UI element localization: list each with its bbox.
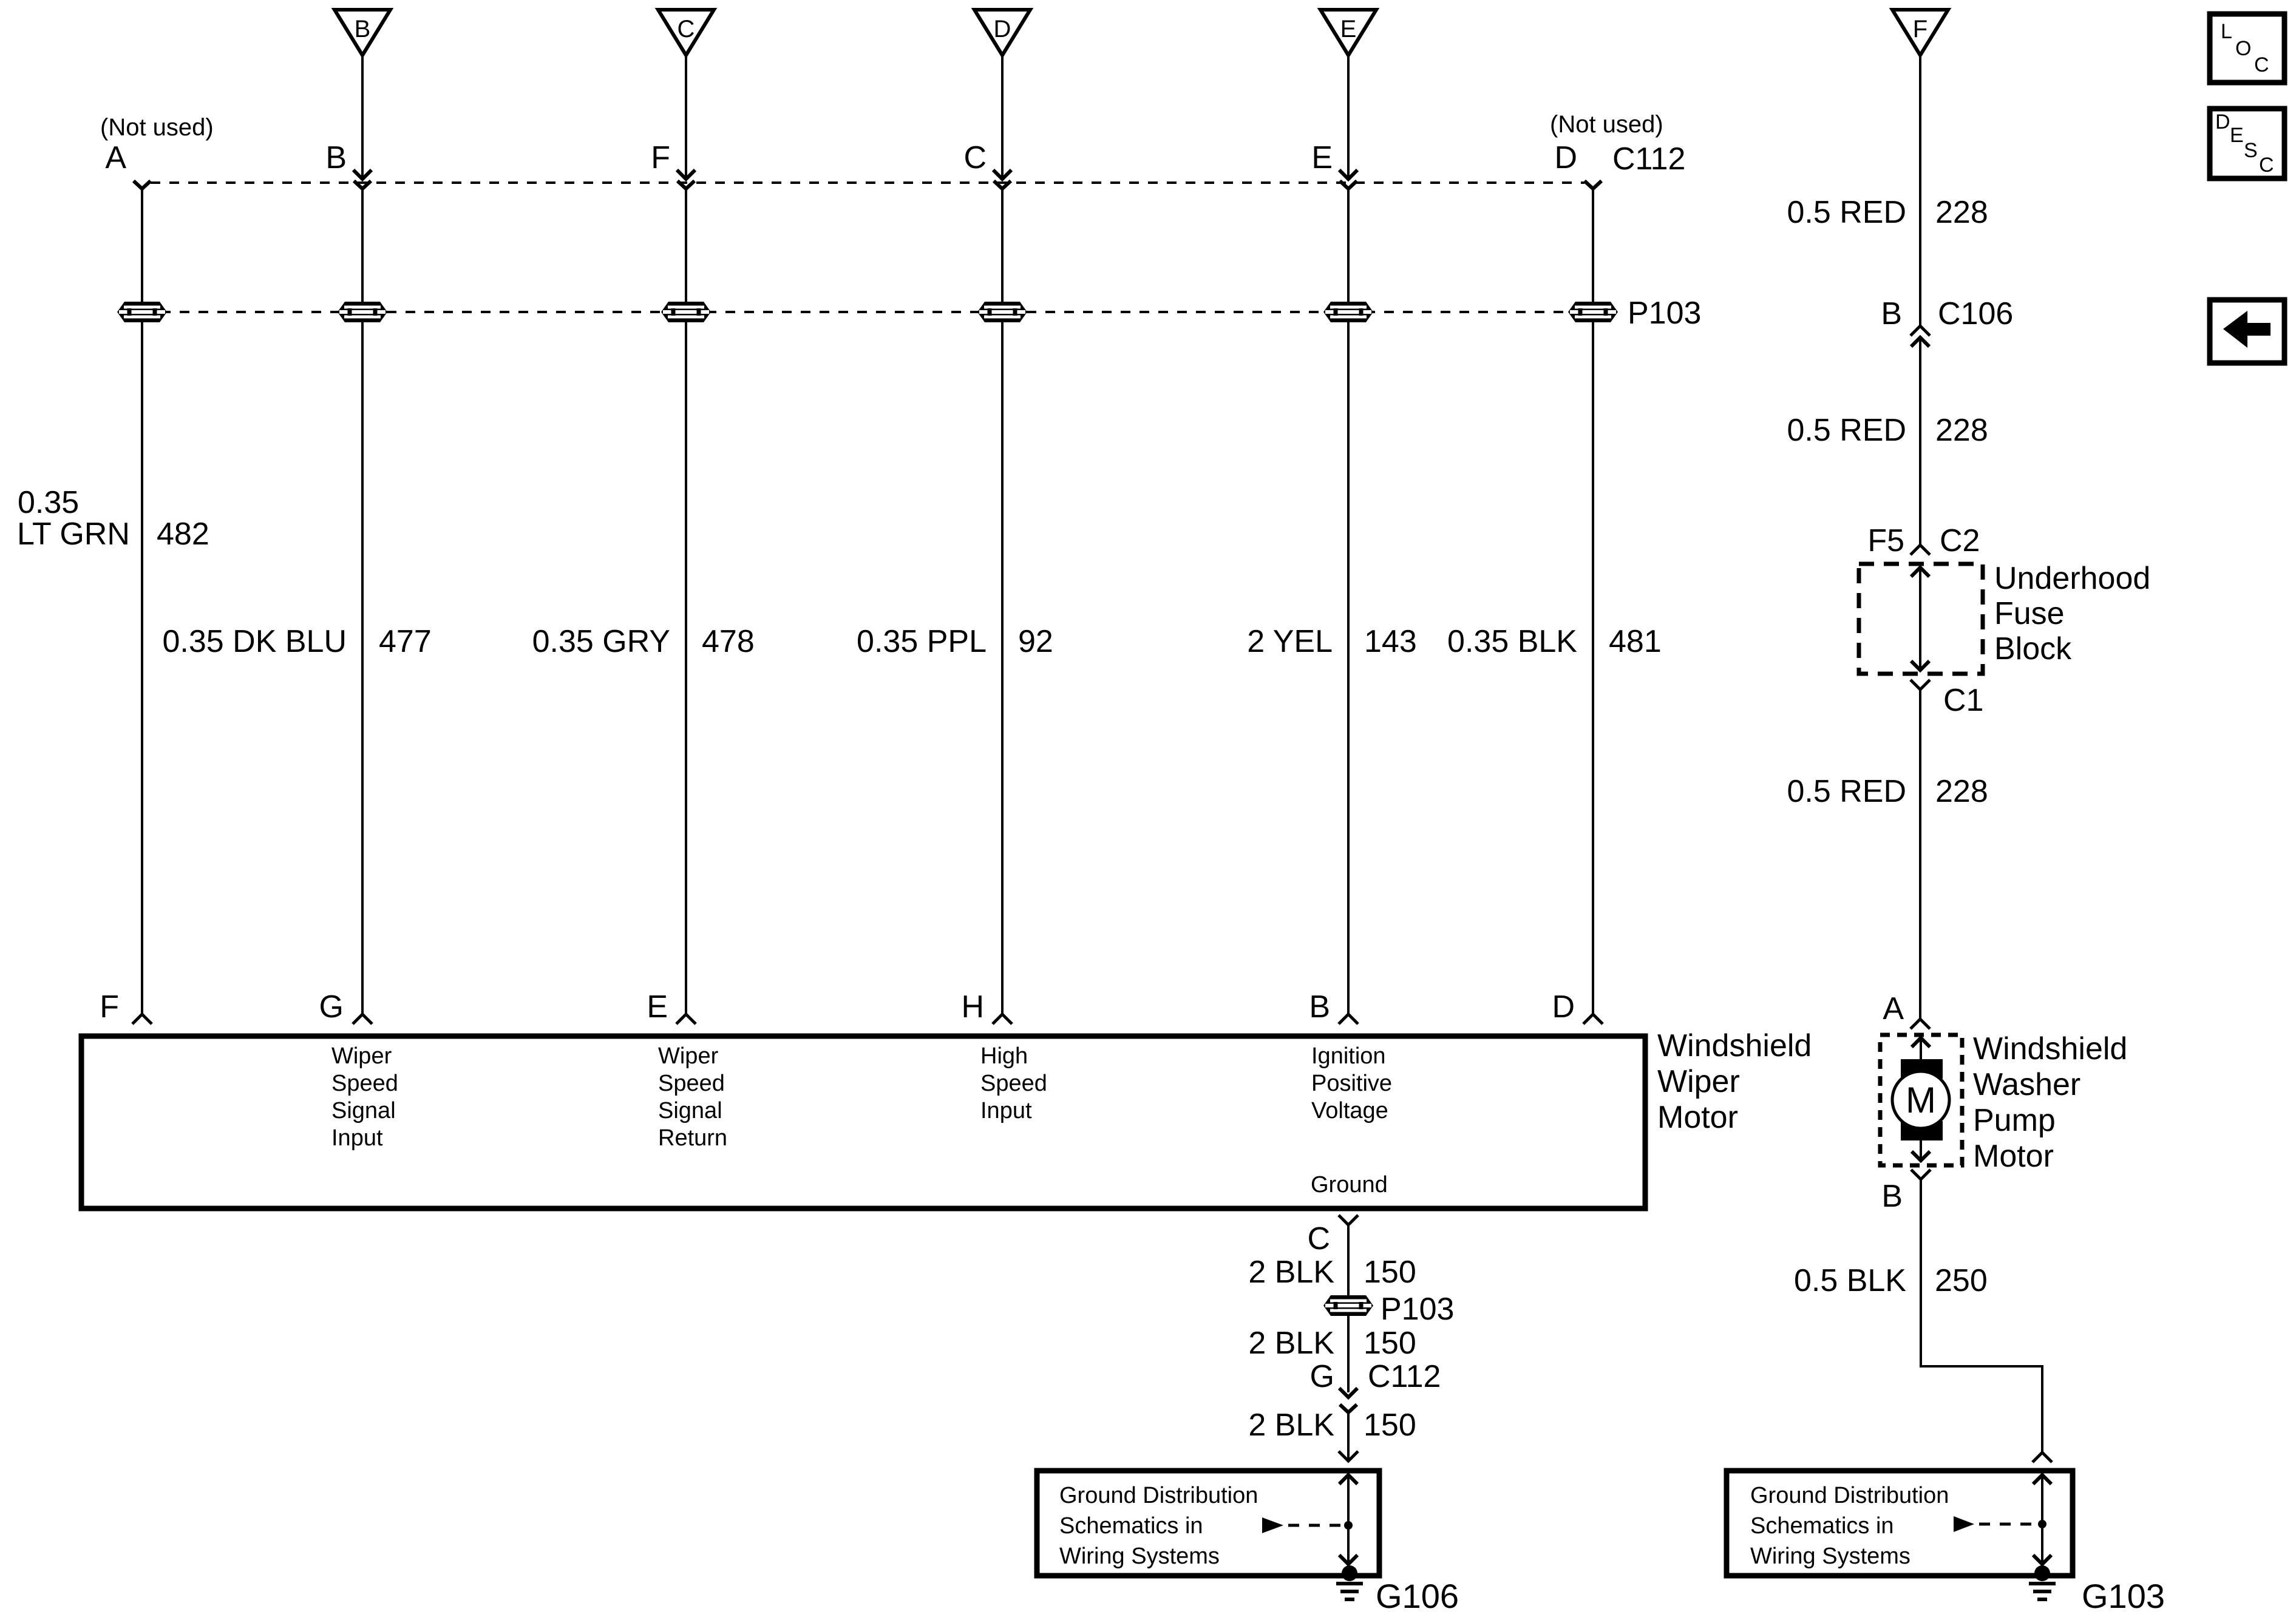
svg-text:0.35 GRY: 0.35 GRY [532,624,670,659]
svg-text:Ground Distribution: Ground Distribution [1750,1483,1949,1508]
windshield washer pump motor dashed box [1880,1035,1962,1165]
page reference triangle C [658,10,714,55]
underhood fuse block dashed box [1859,564,1983,674]
svg-text:0.35 PPL: 0.35 PPL [857,624,987,659]
wire pin C to P103 [1347,1225,1350,1295]
svg-text:Pump: Pump [1973,1103,2056,1138]
svg-text:2 BLK: 2 BLK [1248,1408,1334,1443]
svg-text:C2: C2 [1940,523,1980,558]
svg-text:Voltage: Voltage [1311,1098,1388,1123]
label Windshield Washer Pump Motor [1973,1031,2127,1174]
svg-text:S: S [2244,139,2258,162]
arrow down inside right ground box [2033,1555,2051,1564]
svg-text:92: 92 [1018,624,1053,659]
svg-text:Schematics in: Schematics in [1750,1513,1894,1539]
svg-text:C: C [1307,1221,1330,1256]
svg-text:D: D [1554,140,1577,175]
pointer triangle right ground box [1954,1516,1974,1532]
svg-text:C106: C106 [1938,296,2013,331]
wire C112 to ground box [1347,1411,1350,1461]
svg-text:LT GRN: LT GRN [17,517,130,552]
svg-text:Ground: Ground [1311,1172,1388,1198]
page reference triangle B [335,10,390,55]
svg-text:C: C [963,140,987,175]
svg-text:Return: Return [658,1125,727,1151]
connector C112 dashed line [151,181,1584,184]
label Ground Distribution Schematics left [1059,1483,1258,1569]
svg-text:150: 150 [1364,1255,1416,1290]
splice P103 col D6 [1568,302,1618,322]
connector C112 pin A chevron [134,181,151,189]
svg-text:P103: P103 [1381,1292,1454,1327]
wire col B P103 to motor [361,322,364,1014]
svg-text:Wiring Systems: Wiring Systems [1750,1544,1911,1569]
label Windshield Wiper Motor [1657,1028,1812,1135]
label Underhood Fuse Block [1994,561,2150,666]
svg-text:0.35 BLK: 0.35 BLK [1447,624,1577,659]
svg-text:(Not used): (Not used) [100,114,214,141]
ground G106 symbol [1336,1565,1363,1599]
splice P103 dashed line [142,311,1593,313]
svg-text:E: E [647,989,668,1025]
pointer dot right ground box [2038,1520,2046,1528]
arrow up inside fuse block [1911,568,1929,577]
svg-text:P103: P103 [1628,296,1701,331]
svg-text:Washer: Washer [1973,1067,2080,1102]
svg-text:228: 228 [1935,413,1988,448]
arrow down inside left ground box [1339,1555,1357,1564]
svg-text:0.5 RED: 0.5 RED [1787,413,1906,448]
svg-text:2 YEL: 2 YEL [1247,624,1333,659]
pin B fork into motor box [1339,1014,1358,1024]
svg-text:Windshield: Windshield [1973,1031,2127,1066]
svg-text:150: 150 [1364,1408,1416,1443]
svg-text:482: 482 [157,517,209,552]
ground G103 symbol [2029,1565,2056,1599]
wire washer pump B down [1920,1179,1922,1368]
svg-text:Wiper: Wiper [331,1043,392,1069]
label High Speed Input [980,1043,1047,1123]
svg-text:F: F [651,140,670,175]
svg-text:Wiring Systems: Wiring Systems [1059,1544,1220,1569]
label Ground Distribution Schematics right [1750,1483,1949,1569]
pointer dashed line right ground box [1979,1523,2034,1526]
page reference triangle F [1892,10,1948,55]
svg-text:E: E [1340,16,1357,42]
svg-text:(Not used): (Not used) [1550,111,1663,138]
connector C112 pin D chevron [1584,181,1601,189]
wire col C C112 to P103 [685,189,687,302]
svg-text:Speed: Speed [658,1071,725,1096]
svg-text:Motor: Motor [1973,1139,2054,1174]
svg-text:Signal: Signal [658,1098,722,1123]
arrow up inside washer pump box [1912,1038,1930,1060]
svg-text:High: High [980,1043,1028,1069]
svg-text:2 BLK: 2 BLK [1248,1255,1334,1290]
LOC legend box [2210,14,2284,83]
wire col E triangle to C112 [1347,55,1350,177]
svg-text:228: 228 [1935,195,1988,230]
svg-text:G: G [1310,1359,1334,1394]
svg-text:Motor: Motor [1657,1100,1738,1135]
connector C106 fork and up arrow [1911,326,1930,347]
wire inside right ground box [2041,1474,2043,1566]
svg-text:O: O [2235,37,2251,60]
svg-text:B: B [1881,296,1902,331]
page reference triangle D [974,10,1030,55]
svg-text:G103: G103 [2082,1577,2165,1615]
pin G fork into motor box [353,1014,372,1024]
label Wiper Speed Signal Input [331,1043,398,1151]
wire inside left ground box [1347,1474,1350,1566]
svg-text:Ground Distribution: Ground Distribution [1059,1483,1258,1508]
splice P103 col A [117,302,167,322]
svg-text:Wiper: Wiper [1657,1064,1740,1099]
connector C112 pin B arrow [353,170,372,189]
svg-text:B: B [325,140,347,175]
wire motor to bottom arrow [1920,1140,1922,1161]
arrow up inside right ground box [2033,1475,2051,1484]
svg-text:Ignition: Ignition [1311,1043,1386,1069]
svg-text:G: G [319,989,344,1025]
svg-text:150: 150 [1364,1326,1416,1361]
wire col A P103 to motor [141,322,143,1014]
wire col E C112 to P103 [1347,189,1350,302]
label Ignition Positive Voltage [1311,1043,1392,1123]
svg-text:Positive: Positive [1311,1071,1392,1096]
wire col D6 C112 to P103 [1592,189,1594,302]
splice P103 ground chain [1323,1295,1373,1316]
wire col B C112 to P103 [361,189,364,302]
arrow down inside washer pump box [1912,1151,1930,1161]
svg-text:C: C [678,16,695,42]
svg-text:F: F [1913,16,1927,42]
pin F fork into motor box [132,1014,152,1024]
svg-text:C: C [2254,53,2269,76]
motor M1 washer pump [1892,1059,1949,1140]
svg-text:Block: Block [1994,631,2072,666]
connector C112 pin C arrow [993,170,1011,189]
svg-text:Speed: Speed [980,1071,1047,1096]
wire col D6 P103 to motor [1592,322,1594,1014]
svg-text:Schematics in: Schematics in [1059,1513,1203,1539]
splice P103 col B [338,302,387,322]
pointer dashed line left ground box [1288,1524,1340,1527]
svg-text:477: 477 [379,624,432,659]
back arrow legend box [2210,300,2284,363]
wire col D triangle to C112 [1001,55,1004,177]
ground distribution box left [1037,1471,1379,1576]
svg-text:H: H [961,989,984,1025]
fuse element wire inside fuse block [1919,566,1921,671]
pin B fork below washer pump [1911,1170,1931,1179]
pin D fork into motor box [1583,1014,1603,1024]
connector C112 pin F arrow [677,170,695,189]
ground distribution box right [1727,1471,2073,1576]
pin E fork into motor box [676,1014,696,1024]
svg-text:C: C [2259,154,2274,177]
svg-text:D: D [994,16,1011,42]
svg-text:481: 481 [1609,624,1662,659]
svg-text:0.5 RED: 0.5 RED [1787,195,1906,230]
svg-text:C112: C112 [1368,1359,1441,1394]
wire corner to right ground box [1921,1366,2042,1452]
svg-text:Wiper: Wiper [658,1043,719,1069]
svg-text:Signal: Signal [331,1098,396,1123]
wire col D C112 to P103 [1001,189,1004,302]
svg-text:F5: F5 [1867,523,1904,558]
svg-text:250: 250 [1935,1263,1988,1298]
pin C fork below motor box [1339,1215,1358,1225]
pointer triangle left ground box [1262,1517,1283,1533]
svg-text:A: A [105,140,126,175]
svg-text:C112: C112 [1612,141,1685,177]
fork into right ground box [2033,1452,2052,1462]
wire P103 to C112 [1347,1316,1350,1392]
DESC legend box [2210,109,2284,178]
svg-text:M: M [1906,1080,1936,1120]
svg-text:C1: C1 [1943,683,1983,718]
svg-text:Speed: Speed [331,1071,398,1096]
windshield wiper motor box [81,1036,1645,1208]
svg-text:Fuse: Fuse [1994,596,2065,631]
connector C112 ground chain arrow [1339,1388,1357,1412]
svg-text:A: A [1883,991,1904,1026]
arrow down inside fuse block [1911,661,1929,670]
splice P103 col C [661,302,711,322]
pin H fork into motor box [993,1014,1012,1024]
svg-text:478: 478 [702,624,755,659]
wire C1 to washer pump [1919,690,1921,1019]
wire F triangle to C106 [1919,55,1921,326]
svg-text:E: E [2230,124,2244,147]
wire C106 to fuse block [1919,337,1921,545]
svg-text:0.35: 0.35 [18,485,79,520]
splice P103 col E [1323,302,1373,322]
svg-text:D: D [2215,110,2230,134]
svg-text:E: E [1311,140,1333,175]
svg-text:B: B [1881,1179,1903,1214]
wire col E P103 to motor [1347,322,1350,1014]
svg-text:G106: G106 [1376,1577,1459,1615]
pin F5 fork into fuse block [1911,545,1930,555]
wire col C P103 to motor [685,322,687,1014]
svg-text:Input: Input [980,1098,1032,1123]
pin A fork into washer pump [1911,1019,1930,1029]
svg-text:B: B [1309,989,1330,1025]
svg-text:Underhood: Underhood [1994,561,2150,596]
svg-text:B: B [355,16,371,42]
svg-text:0.5 BLK: 0.5 BLK [1794,1263,1906,1298]
wire col A C112 to P103 [141,189,143,302]
label Wiper Speed Signal Return [658,1043,727,1151]
svg-text:Windshield: Windshield [1657,1028,1812,1063]
arrow up inside left ground box [1339,1475,1357,1484]
svg-text:0.5 RED: 0.5 RED [1787,774,1906,809]
svg-text:F: F [100,989,119,1025]
svg-text:143: 143 [1364,624,1417,659]
splice P103 col D [977,302,1027,322]
pointer dot left ground box [1344,1521,1353,1530]
page reference triangle E [1320,10,1376,55]
svg-text:D: D [1552,989,1575,1025]
svg-text:2 BLK: 2 BLK [1248,1326,1334,1361]
svg-text:228: 228 [1935,774,1988,809]
wire col B triangle to C112 [361,55,364,177]
wire col D P103 to motor [1001,322,1004,1014]
svg-text:L: L [2221,20,2232,43]
svg-text:0.35 DK BLU: 0.35 DK BLU [163,624,347,659]
fork into left ground box [1339,1451,1358,1461]
pin C1 fork below fuse block [1911,680,1930,690]
connector C112 pin E arrow [1339,170,1357,189]
svg-text:Input: Input [331,1125,383,1151]
wire col C triangle to C112 [685,55,687,177]
